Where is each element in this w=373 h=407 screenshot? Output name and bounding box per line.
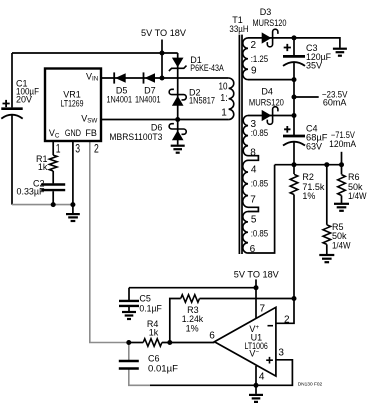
svg-text:GND: GND xyxy=(65,128,81,138)
svg-text:4: 4 xyxy=(259,372,265,383)
svg-text:63V: 63V xyxy=(306,142,322,152)
svg-text:20V: 20V xyxy=(16,95,32,105)
svg-text:2: 2 xyxy=(251,40,257,51)
svg-text:C5: C5 xyxy=(139,294,151,304)
svg-text::1.25: :1.25 xyxy=(251,54,269,64)
svg-text:4: 4 xyxy=(251,165,257,176)
svg-text:MURS120: MURS120 xyxy=(249,98,284,108)
svg-text:10: 10 xyxy=(219,82,228,93)
svg-text:1N4001: 1N4001 xyxy=(135,95,161,105)
svg-text:3: 3 xyxy=(75,143,80,155)
svg-text:0.01µF: 0.01µF xyxy=(148,364,179,374)
svg-text:7: 7 xyxy=(250,195,256,206)
svg-text:LT1269: LT1269 xyxy=(61,99,84,109)
svg-text:1k: 1k xyxy=(38,162,48,172)
svg-text:1k: 1k xyxy=(149,328,159,338)
svg-text:50k: 50k xyxy=(332,231,347,241)
svg-text:5: 5 xyxy=(251,215,257,226)
svg-text:1/4W: 1/4W xyxy=(348,191,367,201)
svg-text:5V TO 18V: 5V TO 18V xyxy=(141,28,186,38)
svg-text:R6: R6 xyxy=(348,172,360,182)
svg-text:7: 7 xyxy=(260,303,266,314)
svg-text:6: 6 xyxy=(250,244,256,255)
svg-text::0.85: :0.85 xyxy=(251,128,269,138)
svg-text:9: 9 xyxy=(251,65,257,76)
svg-text:D4: D4 xyxy=(261,86,273,96)
svg-text:P6KE-43A: P6KE-43A xyxy=(190,63,224,73)
svg-text:1N4001: 1N4001 xyxy=(107,95,133,105)
svg-text:1: 1 xyxy=(56,143,61,155)
svg-text:1N5817: 1N5817 xyxy=(189,96,215,106)
svg-text:D6: D6 xyxy=(151,122,163,132)
svg-text:0.33µF: 0.33µF xyxy=(17,186,45,196)
svg-text:C6: C6 xyxy=(148,354,160,364)
svg-text:2: 2 xyxy=(284,315,290,326)
svg-text:FB: FB xyxy=(85,128,97,138)
svg-text:1%: 1% xyxy=(186,324,199,334)
svg-text:D3: D3 xyxy=(260,7,272,17)
svg-text:6: 6 xyxy=(209,331,215,342)
svg-text:R2: R2 xyxy=(302,172,314,182)
svg-text:DN130 F02: DN130 F02 xyxy=(298,382,323,388)
svg-text:1.24k: 1.24k xyxy=(182,314,204,324)
svg-text::0.85: :0.85 xyxy=(251,179,269,189)
svg-text::0.85: :0.85 xyxy=(251,229,269,239)
svg-text:3: 3 xyxy=(278,348,284,359)
svg-text:1/4W: 1/4W xyxy=(332,241,351,251)
svg-text:MURS120: MURS120 xyxy=(253,18,287,28)
svg-text:5V TO 18V: 5V TO 18V xyxy=(234,270,279,280)
svg-text:60mA: 60mA xyxy=(323,98,347,108)
svg-text:35V: 35V xyxy=(306,61,322,71)
svg-text:8: 8 xyxy=(250,147,256,158)
svg-text:2: 2 xyxy=(94,143,99,155)
svg-text:120mA: 120mA xyxy=(329,139,356,149)
svg-text:MBRS1100T3: MBRS1100T3 xyxy=(109,132,162,142)
svg-text:1: 1 xyxy=(221,108,227,119)
svg-text:1%: 1% xyxy=(302,191,315,201)
svg-text:1:: 1: xyxy=(220,93,228,104)
svg-text:0.1µF: 0.1µF xyxy=(139,304,162,314)
svg-text:33µH: 33µH xyxy=(229,24,248,34)
